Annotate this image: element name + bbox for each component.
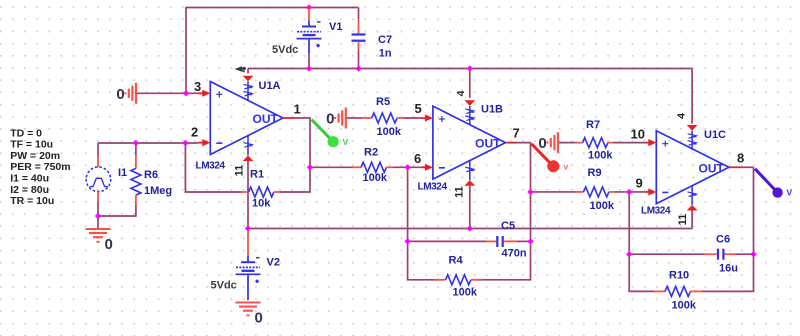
- pin number 1: [294, 102, 301, 117]
- wire U1A pin11 down to V- rail: [247, 161, 249, 229]
- wire R4 right up: [476, 241, 531, 279]
- svg-text:0: 0: [255, 310, 263, 327]
- U1C pin 9 input arrow: [645, 188, 656, 195]
- svg-text:PW = 20m: PW = 20m: [10, 150, 60, 162]
- U1C pin 10 input arrow: [645, 139, 656, 146]
- ground 0 below I1: [86, 229, 113, 253]
- green voltage probe at U1A output: [312, 120, 349, 148]
- junction: [527, 238, 533, 244]
- svg-text:16u: 16u: [719, 263, 738, 275]
- junction: [467, 225, 473, 231]
- value 100k (R2): [363, 172, 388, 184]
- label R4: [449, 255, 464, 267]
- junction: [182, 140, 188, 146]
- svg-text:4: 4: [676, 113, 688, 119]
- label C6: [716, 234, 730, 246]
- svg-text:R2: R2: [364, 147, 378, 159]
- U1B pin 6 input arrow: [421, 164, 433, 171]
- wire V1 bottom to rail: [308, 53, 310, 69]
- wire U1C output pin 8: [740, 166, 754, 168]
- label R1: [250, 169, 264, 181]
- pin number 3: [194, 79, 201, 94]
- svg-text:U1A: U1A: [259, 80, 281, 92]
- ground 0 at R7 (U1C pin 10): [538, 132, 558, 153]
- svg-text:C6: C6: [716, 234, 730, 246]
- wire down to R4 left: [408, 241, 438, 279]
- wire U1B output pin 7 down: [515, 143, 531, 242]
- wire V+ rail drop to U1B pin4: [469, 69, 471, 98]
- wire R9 to U1C pin 9: [614, 191, 645, 193]
- wire C5 left: [408, 240, 487, 242]
- svg-text:R7: R7: [586, 119, 600, 131]
- svg-text:I2 = 80u: I2 = 80u: [10, 184, 49, 196]
- wire to U1A pin 2: [98, 142, 198, 144]
- svg-text:100k: 100k: [453, 287, 478, 299]
- pin number 7: [513, 126, 520, 141]
- svg-text:R5: R5: [376, 96, 390, 108]
- svg-text:U1C: U1C: [704, 129, 726, 141]
- pin number 9: [636, 176, 643, 191]
- ground 0 below V2: [236, 303, 263, 327]
- junction: [467, 65, 473, 71]
- pin number 6: [414, 151, 421, 166]
- wire U1B pin11 to V- rail: [469, 186, 471, 229]
- junction: [306, 65, 312, 71]
- svg-text:100k: 100k: [588, 150, 613, 162]
- svg-text:100k: 100k: [377, 126, 402, 138]
- I1 pulse parameter list: [10, 127, 70, 207]
- label C7: [378, 34, 392, 46]
- label R10: [669, 270, 689, 282]
- U1B pin 5 input arrow: [421, 114, 433, 121]
- resistor R2: [353, 162, 394, 172]
- svg-text:C5: C5: [501, 220, 515, 232]
- label R9: [588, 167, 602, 179]
- svg-text:3: 3: [194, 79, 201, 94]
- svg-text:V1: V1: [329, 21, 342, 33]
- junction: [404, 164, 410, 170]
- junction: [750, 251, 756, 257]
- capacitor C7: [352, 19, 366, 50]
- wire V- rail: [248, 228, 692, 230]
- svg-text:R10: R10: [669, 270, 689, 282]
- wire ground to R5: [347, 117, 363, 119]
- svg-text:V: V: [343, 137, 349, 147]
- pin number 8: [737, 151, 744, 166]
- svg-text:PER = 750m: PER = 750m: [10, 161, 70, 173]
- pin number 5: [415, 101, 422, 116]
- value 10k (R1): [252, 198, 271, 210]
- label U1C: [704, 129, 726, 141]
- wire C6 left: [629, 253, 705, 255]
- value 470n (C5): [502, 248, 527, 260]
- wire ground to U1A pin 3: [137, 92, 198, 94]
- svg-text:0: 0: [326, 111, 334, 128]
- value 100k (R9): [590, 200, 615, 212]
- capacitor C6: [704, 249, 736, 260]
- svg-text:1: 1: [294, 102, 301, 117]
- junction: [306, 4, 312, 10]
- svg-text:R9: R9: [588, 167, 602, 179]
- resistor R4: [435, 275, 483, 285]
- label U1B: [481, 104, 503, 116]
- svg-text:v: v: [564, 162, 569, 172]
- pin number 4 (U1B, rotated): [455, 90, 467, 96]
- svg-text:6: 6: [414, 151, 421, 166]
- voltage source V1: [297, 8, 322, 53]
- junction: [527, 189, 533, 195]
- svg-text:5: 5: [415, 101, 422, 116]
- wire C6 right: [735, 253, 754, 255]
- svg-text:TF = 10u: TF = 10u: [10, 139, 53, 151]
- op-amp U1C power pin 11: [687, 185, 698, 211]
- op-amp U1B power pin 4: [464, 100, 475, 125]
- label LM324 (U1C): [641, 206, 671, 217]
- label R2: [364, 147, 378, 159]
- voltage source V2: [236, 230, 261, 301]
- label LM324 (U1A): [196, 161, 226, 172]
- junction: [95, 213, 101, 219]
- value 16u (C6): [719, 263, 738, 275]
- junction: [355, 65, 361, 71]
- wire ground to R7: [559, 142, 575, 144]
- svg-text:OUT: OUT: [253, 112, 279, 126]
- svg-text:2: 2: [191, 125, 198, 140]
- junction: [183, 90, 189, 96]
- pin number 4 (U1A, rotated): [237, 66, 249, 72]
- power rail end arrow: [235, 66, 246, 72]
- wire R7 to U1C pin 10: [613, 142, 645, 144]
- op-amp U1C power pin 4: [687, 125, 698, 150]
- svg-text:C7: C7: [378, 34, 392, 46]
- label R6: [144, 169, 158, 181]
- svg-text:OUT: OUT: [475, 137, 501, 151]
- wire R1 right up to output node: [279, 167, 310, 192]
- label V1: [329, 21, 342, 33]
- purple voltage probe at U1C output: [755, 169, 793, 198]
- wire R10 right up to U1C output: [701, 167, 754, 291]
- value 100k (R4): [453, 287, 478, 299]
- ground 0 at R5 (U1B pin 5): [326, 108, 346, 129]
- wire R5 to U1B pin 5: [403, 117, 421, 119]
- wire U1A output pin 1 down: [294, 118, 310, 167]
- U1A pin 2 input arrow: [198, 139, 211, 146]
- pin number 2: [191, 125, 198, 140]
- svg-text:TD = 0: TD = 0: [10, 127, 42, 139]
- junction: [626, 189, 632, 195]
- ground 0 at U1A pin 3: [116, 83, 136, 104]
- wire top feedback from C7 to V1 node: [309, 7, 359, 9]
- value 100k (R7): [588, 150, 613, 162]
- label R5: [376, 96, 390, 108]
- U1C output pin stub: [729, 166, 740, 168]
- op-amp U1B: [433, 106, 506, 179]
- junction: [245, 225, 251, 231]
- wire pin6 node down to C5: [407, 167, 409, 241]
- svg-text:V: V: [787, 188, 793, 198]
- svg-text:R4: R4: [449, 255, 464, 267]
- wire V- rail up to U1C pin11: [691, 210, 693, 228]
- wire V+ rail: [248, 68, 692, 70]
- current source I1: [86, 156, 111, 202]
- svg-text:470n: 470n: [502, 248, 527, 260]
- svg-text:100k: 100k: [590, 200, 615, 212]
- wire inverting node down to R1: [185, 143, 241, 192]
- svg-text:1n: 1n: [379, 48, 392, 60]
- label LM324 (U1B): [418, 182, 448, 193]
- pin number 11 (U1C, rotated): [677, 214, 689, 226]
- resistor R5: [362, 113, 404, 123]
- svg-text:1Meg: 1Meg: [144, 185, 172, 197]
- svg-text:11: 11: [677, 214, 689, 226]
- op-amp U1A power pin 11: [243, 136, 254, 162]
- svg-text:LM324: LM324: [196, 161, 226, 172]
- svg-text:I1: I1: [118, 167, 127, 179]
- wire V+ rail drop to U1C pin4: [691, 69, 693, 124]
- svg-text:4: 4: [455, 90, 467, 96]
- resistor R6: [131, 155, 141, 205]
- resistor R10: [654, 286, 702, 296]
- svg-text:9: 9: [636, 176, 643, 191]
- svg-text:0: 0: [116, 86, 124, 103]
- label R7: [586, 119, 600, 131]
- svg-text:OUT: OUT: [699, 161, 725, 175]
- op-amp U1A: [210, 82, 283, 155]
- U1A output pin stub: [284, 117, 295, 119]
- wire C7 top: [358, 8, 360, 20]
- resistor R1: [242, 187, 281, 197]
- svg-text:5Vdc: 5Vdc: [272, 44, 298, 56]
- op-amp U1C: [656, 131, 729, 204]
- label C5: [501, 220, 515, 232]
- value 100k (R5): [377, 126, 402, 138]
- svg-text:LM324: LM324: [641, 206, 671, 217]
- junction: [404, 238, 410, 244]
- value 1Meg (R6): [144, 185, 172, 197]
- U1B output pin stub: [506, 142, 516, 144]
- pin number 11 (U1A, rotated): [234, 165, 246, 177]
- junction: [307, 164, 313, 170]
- op-amp U1A power pin 4: [243, 76, 254, 101]
- wire output node to R9: [531, 191, 576, 193]
- svg-text:U1B: U1B: [481, 104, 503, 116]
- wire C7 bottom to rail: [358, 50, 360, 69]
- wire output node to R2: [310, 166, 353, 168]
- capacitor C5: [486, 236, 518, 247]
- svg-text:100k: 100k: [363, 172, 388, 184]
- resistor R7: [575, 138, 614, 148]
- svg-text:10k: 10k: [252, 198, 271, 210]
- label V2: [267, 257, 280, 269]
- wire U1A pin4 stub: [247, 69, 249, 74]
- junction: [133, 140, 139, 146]
- svg-text:11: 11: [234, 165, 246, 177]
- svg-text:R6: R6: [144, 169, 158, 181]
- svg-text:8: 8: [737, 151, 744, 166]
- junction: [626, 251, 632, 257]
- svg-text:0: 0: [105, 236, 113, 253]
- label U1A: [259, 80, 281, 92]
- svg-text:11: 11: [454, 186, 466, 198]
- svg-text:R1: R1: [250, 169, 264, 181]
- resistor R9: [576, 187, 615, 197]
- svg-text:TR = 10u: TR = 10u: [10, 195, 54, 207]
- wire pin9 node down to R10: [629, 192, 655, 291]
- wire R6 bottom: [98, 205, 136, 216]
- value 1n (C7): [379, 48, 392, 60]
- op-amp U1B power pin 11: [464, 160, 475, 186]
- svg-text:0: 0: [538, 135, 546, 152]
- wire I1 bottom to ground: [97, 202, 99, 229]
- wire C5 right: [516, 240, 531, 242]
- svg-text:100k: 100k: [672, 300, 697, 312]
- svg-text:7: 7: [513, 126, 520, 141]
- label I1: [118, 167, 127, 179]
- U1A pin 3 input arrow: [198, 90, 211, 97]
- pin number 10: [631, 126, 645, 141]
- wire top feedback to U1A pin3 node: [186, 8, 309, 94]
- pin number 4 (U1C, rotated): [676, 113, 688, 119]
- wire I1 top drop: [97, 143, 99, 156]
- pin number 11 (U1B, rotated): [454, 186, 466, 198]
- svg-text:5Vdc: 5Vdc: [211, 280, 237, 292]
- red voltage probe at U1B output: [532, 144, 569, 173]
- value 5Vdc (V2): [211, 280, 237, 292]
- wire R2 to U1A... pin 6: [393, 166, 421, 168]
- svg-text:LM324: LM324: [418, 182, 448, 193]
- svg-text:10: 10: [631, 126, 645, 141]
- svg-text:V2: V2: [267, 257, 280, 269]
- svg-text:I1 = 40u: I1 = 40u: [10, 173, 49, 185]
- wire R6 top stub: [135, 143, 137, 155]
- value 100k (R10): [672, 300, 697, 312]
- value 5Vdc (V1): [272, 44, 298, 56]
